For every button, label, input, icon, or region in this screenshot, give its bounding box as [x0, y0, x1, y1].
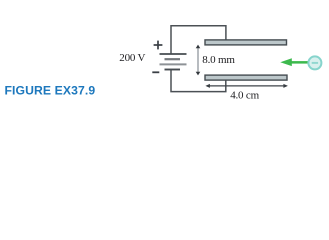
electron velocity arrow (green, pointing left) — [280, 58, 308, 66]
battery V1 plate long top — [160, 53, 187, 55]
battery plus terminal sign — [154, 41, 163, 50]
svg-text:FIGURE EX37.9: FIGURE EX37.9 — [5, 84, 96, 98]
svg-text:8.0 mm: 8.0 mm — [202, 54, 235, 66]
gap dimension arrow 8.0 mm — [196, 45, 201, 76]
battery V1 plate short — [165, 58, 181, 60]
svg-text:4.0 cm: 4.0 cm — [230, 89, 259, 101]
capacitor bottom plate — [205, 75, 287, 80]
length dimension arrow 4.0 cm — [205, 84, 288, 88]
battery V1 plate short bottom — [165, 69, 181, 71]
battery V1 plate long lower — [160, 63, 187, 65]
wire: battery bottom to bottom plate stub — [171, 70, 226, 92]
wire: battery top to top plate stub — [171, 26, 226, 54]
battery minus terminal sign — [152, 71, 159, 73]
svg-text:200 V: 200 V — [119, 52, 145, 64]
electron particle — [308, 56, 321, 69]
capacitor top plate — [205, 40, 287, 45]
